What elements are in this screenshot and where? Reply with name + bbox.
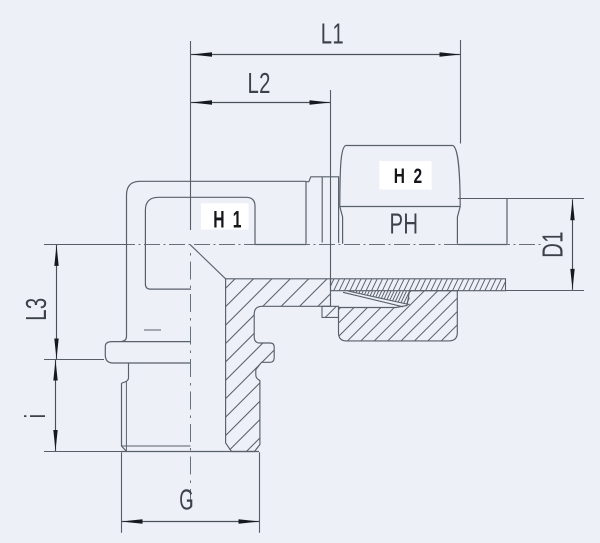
hatch: nut H2 section (337, 289, 459, 342)
stud bottom face (122, 451, 260, 453)
nut H2 section outline (339, 291, 458, 341)
hex H1 (145, 197, 255, 289)
tube bottom silhouette at centerline (458, 244, 507, 246)
D1 bottom extension (506, 290, 585, 292)
ferrule cone line upper (348, 291, 410, 305)
dimension D1 (537, 199, 575, 290)
ferrule cone line lower (343, 292, 403, 307)
hatch: body L-section (223, 276, 340, 454)
label H1 (201, 203, 249, 233)
thread crest left (122, 383, 127, 452)
hatch: tube wall band (329, 278, 507, 292)
horizontal centerline solid lead / L3 reference (44, 244, 128, 246)
dimension L3 (21, 245, 104, 360)
svg-text:H 1: H 1 (213, 206, 243, 233)
svg-text:H 2: H 2 (394, 163, 425, 187)
collar left (105, 342, 190, 363)
dimension G (122, 452, 260, 533)
hatch: body nose tab (324, 305, 338, 319)
short internal dash (144, 329, 161, 331)
vertical centerline (190, 253, 192, 512)
body nose tab outline (322, 306, 339, 317)
label H2 (379, 161, 431, 189)
svg-text:D1: D1 (537, 231, 569, 258)
tube top line + D1 top extension (458, 198, 584, 200)
tube wall band outline (331, 279, 506, 291)
thread chamfer line (122, 445, 191, 447)
svg-text:PH: PH (390, 208, 419, 240)
boss bottom silhouette at centerline (255, 244, 306, 246)
svg-text:L1: L1 (321, 18, 344, 50)
thread root left (125, 381, 127, 451)
svg-text:i: i (20, 414, 52, 419)
bore diagonal edge (190, 245, 225, 279)
dimension L2 (191, 67, 331, 286)
dimension i (20, 360, 122, 452)
ferrule bump (306, 177, 339, 243)
elbow outer contour (122, 181, 307, 341)
svg-text:L3: L3 (21, 298, 53, 321)
dimension L1 (191, 18, 461, 230)
tube end face (506, 198, 508, 243)
horizontal centerline (44, 244, 543, 246)
nut H2 outline (340, 146, 460, 244)
body L-section outline (226, 279, 331, 452)
hatch: ferrule wedge (345, 290, 411, 306)
neck below collar (122, 363, 129, 383)
svg-text:L2: L2 (248, 67, 271, 99)
svg-text:G: G (179, 485, 194, 517)
elbow boss end face (305, 181, 307, 244)
